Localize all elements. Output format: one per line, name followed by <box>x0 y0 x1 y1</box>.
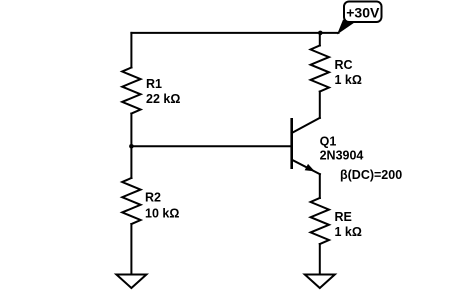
svg-text:R2: R2 <box>145 191 161 205</box>
svg-text:22 kΩ: 22 kΩ <box>146 92 180 106</box>
svg-text:1 kΩ: 1 kΩ <box>335 225 362 239</box>
svg-text:+30V: +30V <box>346 5 380 21</box>
svg-text:β(DC)=200: β(DC)=200 <box>340 168 402 182</box>
svg-text:2N3904: 2N3904 <box>320 149 364 163</box>
svg-text:1 kΩ: 1 kΩ <box>335 73 362 87</box>
svg-text:RE: RE <box>335 210 352 224</box>
svg-text:10 kΩ: 10 kΩ <box>145 207 179 221</box>
svg-text:RC: RC <box>335 58 353 72</box>
svg-text:Q1: Q1 <box>320 135 337 149</box>
svg-text:R1: R1 <box>146 77 162 91</box>
